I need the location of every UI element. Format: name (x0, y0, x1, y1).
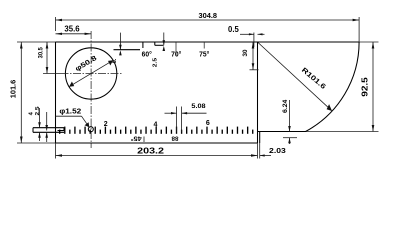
dim 0.5 left arrow line (240, 33, 254, 35)
dim 2.5b upper arrowhead (45, 125, 48, 131)
dim 304.8 line (56, 19, 360, 21)
svg-text:30.5: 30.5 (37, 47, 44, 59)
dim 101.6 line (20, 42, 22, 143)
304.8 right arrowhead (353, 19, 360, 21)
svg-text:30: 30 (242, 49, 249, 56)
304.8 right extension (358, 17, 360, 42)
dim 2.5 shaft (163, 33, 165, 46)
101.6 top arrowhead (20, 42, 23, 49)
dim 2.5b upper shaft (46, 112, 48, 131)
svg-text:70°: 70° (171, 51, 181, 59)
6.24 down arrowhead (288, 126, 291, 132)
bottom edge extension for 92.5 (306, 131, 379, 133)
svg-text:35.6: 35.6 (64, 24, 80, 33)
svg-text:5.08: 5.08 (191, 103, 206, 110)
circle vertical centerline (90, 31, 92, 148)
dim 35.6 line (56, 33, 92, 35)
2.03 arrowhead (260, 154, 265, 156)
dim 0.5 left ext (253, 33, 255, 48)
304.8 left arrowhead (56, 19, 63, 21)
svg-text:2.5: 2.5 (35, 106, 41, 116)
30.5 bottom arrowhead (46, 67, 49, 74)
203.2 left extension (55, 143, 57, 159)
tongue inner step (58, 130, 65, 132)
part left edge (55, 42, 57, 143)
svg-text:2.5: 2.5 (153, 57, 159, 67)
dim 30 bottom ext (250, 69, 259, 71)
arc R101.6 (306, 42, 360, 132)
svg-text:203.2: 203.2 (137, 146, 165, 155)
101.6 top extension (17, 41, 56, 43)
dim 2.5 up arrowhead below (163, 46, 166, 51)
svg-text:2.03: 2.03 (269, 146, 286, 155)
notch 70 floor (155, 44, 164, 46)
92.5 bottom arrowhead (372, 125, 375, 132)
101.6 bottom extension (17, 142, 56, 144)
dim 30 line (252, 42, 254, 70)
203.2 right arrowhead (251, 154, 258, 157)
part top edge (56, 41, 360, 43)
dim 5.08 left arrow line (165, 112, 177, 114)
dim 30 bottom arrowhead (252, 63, 255, 70)
svg-text:304.8: 304.8 (199, 11, 218, 20)
304.8 left extension (55, 17, 57, 31)
dim 4 upper arrowhead (38, 122, 41, 128)
svg-text:92.5: 92.5 (360, 77, 369, 97)
svg-text:φ1.52: φ1.52 (59, 107, 81, 116)
dim 5.08 right arrow line (182, 112, 207, 114)
notch 60 floor line (114, 49, 141, 51)
dim 2.5b lower shaft (46, 132, 48, 142)
notch 75 ext line (203, 42, 205, 49)
dim 5.08 right ext (181, 107, 183, 133)
dim 203.2 line (56, 155, 258, 157)
radius leader line (258, 43, 332, 111)
phi1.52 leader arrowhead (85, 122, 90, 127)
tongue top line (33, 127, 64, 129)
svg-text:6: 6 (206, 120, 210, 127)
dim 2.5 down arrowhead (163, 40, 166, 45)
circle diameter 50.8 (65, 48, 116, 99)
dim 5.08 left ext (176, 107, 178, 133)
svg-text:45°: 45° (130, 135, 142, 141)
dim 4 lower arrowhead (38, 132, 41, 138)
dim 6 down arrowhead (119, 45, 122, 50)
5.08 left arrowhead (171, 112, 177, 114)
5.08 right arrowhead (182, 112, 188, 114)
right section bottom edge (258, 131, 307, 133)
phi1.52 leader underline (56, 115, 82, 117)
dim 0.5 right arrow line (258, 33, 265, 35)
tongue left end (32, 128, 34, 133)
notch 70 ext line (175, 42, 177, 56)
ruler ticks (60, 127, 253, 134)
35.6 right arrowhead (85, 33, 92, 35)
right section left edge (257, 42, 259, 143)
notch 60 right tick (142, 43, 144, 49)
0.5 left arrowhead (249, 33, 254, 35)
dim 2.03 ext (259, 143, 261, 159)
tongue bottom line (33, 131, 64, 133)
diameter arrowhead lower-left (69, 82, 74, 87)
6.24 lower ext (283, 137, 297, 139)
svg-text:2: 2 (104, 121, 108, 128)
phi1.52 leader diagonal (82, 116, 89, 126)
dim 4 lower shaft (39, 132, 41, 141)
circle horizontal centerline (61, 73, 124, 75)
35.6 left arrowhead (56, 33, 63, 35)
dim 6.24 lower shaft (289, 138, 291, 144)
dim 6 up arrowhead below (119, 50, 122, 55)
203.2 left arrowhead (56, 154, 63, 157)
diameter arrowhead upper-right (108, 60, 113, 65)
svg-text:60°: 60° (142, 51, 152, 59)
101.6 bottom arrowhead (20, 137, 23, 144)
svg-text:88: 88 (171, 135, 179, 141)
hole phi1.52 (88, 127, 93, 132)
dim 2.03 arrow line (260, 155, 271, 157)
svg-text:6.: 6. (112, 58, 118, 63)
svg-text:101.6: 101.6 (9, 80, 18, 98)
svg-text:75°: 75° (199, 51, 209, 59)
dim 30.5 line (46, 42, 48, 74)
diameter dimension line (69, 60, 113, 86)
left section right edge stub (259, 132, 261, 144)
dim 2.5b lower arrowhead (45, 132, 48, 138)
part bottom edge left section (56, 142, 258, 144)
203.2 right extension (257, 143, 259, 159)
svg-text:4: 4 (153, 122, 157, 129)
30.5 extension (43, 73, 61, 75)
dim 6 shaft (119, 33, 121, 50)
6.24 up arrowhead (288, 138, 291, 144)
tongue right end (63, 128, 65, 131)
30.5 top arrowhead (46, 42, 49, 49)
ruler sub tick (143, 137, 145, 143)
notch 70 wall (154, 42, 156, 45)
dim 30 top arrowhead (252, 42, 255, 49)
dim 4 upper shaft (39, 108, 41, 128)
0.5 right arrowhead (258, 33, 263, 35)
svg-text:6.24: 6.24 (283, 99, 289, 113)
dim 92.5 line (372, 42, 374, 132)
svg-text:0.5: 0.5 (228, 25, 239, 34)
radius leader arrowhead (327, 104, 332, 111)
dim 6.24 shaft (289, 100, 291, 132)
top edge extension for 92.5 (359, 41, 378, 43)
92.5 top arrowhead (372, 42, 375, 49)
